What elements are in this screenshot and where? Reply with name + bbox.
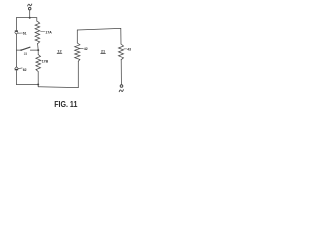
wire left rail lower bbox=[15, 70, 17, 84]
label 17A bbox=[41, 30, 53, 34]
wire 17A bottom to node bbox=[37, 44, 40, 50]
diode 62 bbox=[15, 67, 23, 71]
wire top-left horizontal bbox=[16, 18, 36, 22]
svg-text:12: 12 bbox=[57, 49, 62, 54]
node junction at switch/resistor bbox=[37, 49, 39, 51]
wire middle resistor top lead bbox=[76, 30, 78, 43]
svg-text:61: 61 bbox=[23, 31, 27, 35]
wire left rail middle bbox=[15, 34, 17, 66]
svg-text:42: 42 bbox=[84, 47, 88, 51]
wire bottom-left bbox=[16, 84, 38, 86]
node junction bottom-left bbox=[37, 84, 39, 86]
label 42 bbox=[80, 47, 87, 51]
svg-text:15: 15 bbox=[24, 52, 28, 56]
switch 15 blade bbox=[20, 47, 30, 51]
svg-text:17B: 17B bbox=[42, 60, 49, 64]
node label 21 (underlined) bbox=[101, 48, 106, 53]
terminal T2 (AC output, bottom right) bbox=[119, 85, 123, 92]
label 17B bbox=[41, 60, 49, 64]
resistor 42 bbox=[75, 43, 80, 61]
switch 15 wire bbox=[16, 49, 21, 51]
wire right resistor top lead bbox=[120, 28, 122, 44]
svg-text:62: 62 bbox=[23, 68, 27, 72]
switch wire to node bbox=[30, 49, 38, 51]
resistor 17A bbox=[35, 21, 40, 44]
resistor 17B bbox=[36, 55, 41, 72]
terminal T1 (AC input, top left) bbox=[28, 4, 32, 18]
wire jog down bbox=[37, 85, 39, 87]
wire node to 17B bbox=[37, 50, 39, 54]
wire top-middle horizontal (slight scan slant) bbox=[77, 28, 121, 30]
wire middle resistor bottom lead bbox=[77, 61, 79, 87]
label 43 bbox=[124, 48, 131, 52]
wire bottom-middle bbox=[38, 86, 78, 89]
node junction at top wire bbox=[29, 17, 31, 19]
wire left rail upper bbox=[15, 18, 17, 31]
resistor 43 bbox=[119, 44, 124, 60]
svg-text:21: 21 bbox=[101, 48, 106, 53]
wire right resistor bottom lead bbox=[120, 60, 122, 85]
diode 61 bbox=[15, 30, 22, 34]
wire 17B bottom bbox=[37, 72, 39, 85]
node label 12 (underlined) bbox=[57, 49, 62, 54]
svg-text:17A: 17A bbox=[45, 30, 52, 34]
svg-text:FIG. 11: FIG. 11 bbox=[54, 99, 77, 109]
svg-text:43: 43 bbox=[127, 48, 131, 52]
